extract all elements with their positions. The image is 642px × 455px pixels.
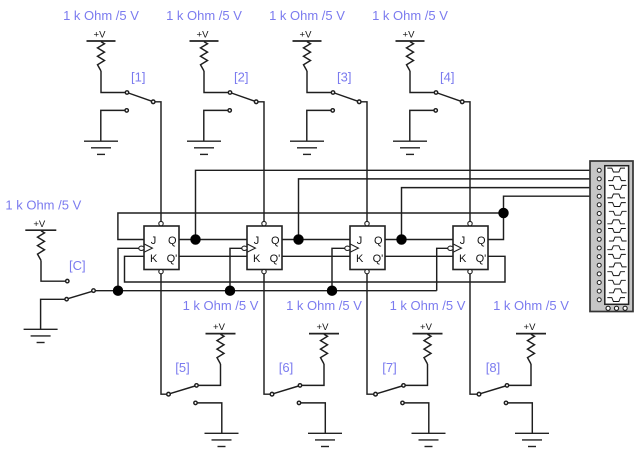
+V supply (top block 4) (396, 30, 425, 41)
svg-text:+V: +V (94, 30, 107, 41)
label [4] (440, 70, 454, 85)
resistor RC 1 kOhm (38, 231, 45, 261)
+V supply (top block 2) (190, 30, 219, 41)
wire clock branch to U2 (230, 248, 242, 290)
svg-text:J: J (254, 235, 259, 247)
junction dot clock node 2 (226, 286, 235, 295)
switch [1] blade and contacts (125, 91, 155, 104)
wire (switch [1] ground throw) (101, 110, 125, 141)
ground (top block 3) (290, 141, 324, 154)
+V supply (top block 3) (293, 30, 322, 41)
switch [C] open throw contact (66, 279, 69, 282)
switch [C] blade and pole (65, 289, 95, 301)
wire (R7 to switch [7]) (405, 364, 427, 385)
switch [4] ground throw contact (434, 109, 437, 112)
label [7] (382, 360, 396, 375)
svg-text:1 k Ohm /5 V: 1 k Ohm /5 V (183, 298, 259, 313)
svg-text:1 k Ohm /5 V: 1 k Ohm /5 V (269, 8, 345, 23)
resistor R7 1 kOhm (424, 334, 431, 364)
svg-text:+V: +V (197, 30, 210, 41)
ground (bottom block 7) (412, 433, 446, 446)
resistor R6 1 kOhm (321, 334, 328, 364)
label "1 k Ohm /5 V" (top block 2) (166, 8, 242, 23)
switch [6] ground throw contact (297, 401, 300, 404)
resistor R1 1 kOhm (98, 42, 105, 71)
wire (R4 to switch [4]) (410, 71, 434, 93)
svg-text:+V: +V (300, 30, 313, 41)
wire (U4 clear pin to switch [8] pole) (470, 274, 477, 394)
label "1 k Ohm /5 V" (clock block C) (5, 197, 81, 212)
svg-text:K: K (459, 253, 467, 265)
svg-text:+V: +V (317, 322, 330, 333)
switch [6] blade and contacts (270, 384, 301, 396)
wire (R8 to switch [8]) (509, 364, 531, 385)
ground (bottom block 6) (308, 433, 342, 446)
wire (switch [3] ground throw) (307, 110, 331, 141)
svg-text:[7]: [7] (382, 360, 396, 375)
ground (top block 1) (84, 141, 118, 154)
logic analyzer body (590, 161, 633, 312)
wire Q1 to J2 (179, 239, 247, 241)
wire (RC to switch [C] open throw) (41, 260, 66, 281)
+V supply (bottom block 6) (309, 322, 339, 333)
wire J feedback bus (Q4 to J1) (118, 213, 504, 240)
svg-text:[4]: [4] (440, 70, 454, 85)
label [C] (69, 258, 86, 273)
svg-text:[8]: [8] (486, 360, 500, 375)
label "1 k Ohm /5 V" (top block 4) (372, 8, 448, 23)
ground (bottom block 8) (515, 433, 549, 446)
switch [2] blade and contacts (228, 91, 258, 104)
ground (bottom block 5) (205, 433, 239, 446)
svg-text:1 k Ohm /5 V: 1 k Ohm /5 V (390, 298, 466, 313)
resistor R5 1 kOhm (217, 334, 224, 364)
label [1] (131, 70, 145, 85)
switch [7] blade and contacts (374, 384, 405, 396)
+V supply (clock block C) (25, 219, 56, 230)
junction dot clock node 1 (114, 286, 123, 295)
ground (top block 4) (393, 141, 427, 154)
wire (switch [7] ground throw) (404, 403, 429, 433)
wire (switch [C] pole to clock bus) (95, 290, 116, 292)
svg-text:Q': Q' (167, 253, 178, 265)
svg-text:1 k Ohm /5 V: 1 k Ohm /5 V (5, 197, 81, 212)
junction dot node Q4 feedback (499, 209, 508, 218)
J-K flip-flop U4 (448, 221, 488, 273)
svg-text:[C]: [C] (69, 258, 86, 273)
label "1 k Ohm /5 V" (bottom block 6) (286, 298, 362, 313)
switch [8] blade and contacts (477, 384, 508, 396)
svg-text:Q': Q' (476, 253, 487, 265)
J-K flip-flop U2 (242, 221, 282, 273)
switch [8] ground throw contact (504, 401, 507, 404)
svg-text:J: J (460, 235, 466, 247)
switch [7] ground throw contact (401, 401, 404, 404)
wire (U2 clear pin to switch [6] pole) (264, 274, 270, 394)
wire Q'2 to K3 (282, 255, 350, 257)
wire Q'1 to K2 (179, 255, 247, 257)
label "1 k Ohm /5 V" (bottom block 5) (183, 298, 259, 313)
logic analyzer waveform display (607, 168, 626, 301)
svg-text:[6]: [6] (279, 360, 293, 375)
+V supply (bottom block 7) (413, 322, 443, 333)
wire Q2 to J3 (282, 239, 350, 241)
switch [5] ground throw contact (194, 401, 197, 404)
svg-text:J: J (357, 235, 363, 247)
wire (switch [6] ground throw) (301, 403, 326, 433)
wire Q4 to analyzer ch4 (488, 196, 597, 239)
switch [3] blade and contacts (331, 91, 361, 104)
logic analyzer bottom terminals (606, 306, 627, 310)
svg-text:1 k Ohm /5 V: 1 k Ohm /5 V (166, 8, 242, 23)
wire clock branch to U3 (332, 248, 345, 290)
svg-text:+V: +V (420, 322, 433, 333)
wire (R2 to switch [2]) (204, 71, 228, 93)
wire Q1 to analyzer ch1 (196, 170, 598, 239)
+V supply (bottom block 5) (206, 322, 236, 333)
svg-text:Q: Q (477, 235, 486, 247)
+V supply (bottom block 8) (516, 322, 546, 333)
svg-text:K: K (150, 253, 158, 265)
wire (switch [2] pole to FF2 preset pin) (258, 102, 264, 222)
wire (R1 to switch [1]) (101, 71, 125, 93)
wire Q'3 to K4 (385, 255, 453, 257)
wire K feedback bus (Q'4 to K1) (125, 256, 506, 282)
svg-text:K: K (356, 253, 364, 265)
switch [5] blade and contacts (167, 384, 199, 396)
svg-text:Q: Q (271, 235, 280, 247)
J-K flip-flop U3 (345, 221, 385, 273)
resistor R2 1 kOhm (201, 42, 208, 71)
wire (switch [4] ground throw) (410, 110, 434, 141)
wire (R3 to switch [3]) (307, 71, 331, 93)
wire (switch [C] ground throw) (41, 299, 65, 329)
svg-text:[3]: [3] (337, 70, 351, 85)
label [5] (175, 360, 189, 375)
label "1 k Ohm /5 V" (top block 3) (269, 8, 345, 23)
wire clock branch to U1 (118, 248, 139, 290)
wire (switch [2] ground throw) (204, 110, 228, 141)
wire (switch [1] pole to FF1 preset pin) (155, 102, 161, 222)
svg-text:J: J (151, 235, 157, 247)
label [6] (279, 360, 293, 375)
junction dot node Q2 (294, 235, 303, 244)
resistor R3 1 kOhm (304, 42, 311, 71)
switch [3] ground throw contact (331, 109, 334, 112)
+V supply (top block 1) (87, 30, 116, 41)
J-K flip-flop U1 (139, 221, 179, 273)
wire (U1 clear pin to switch [5] pole) (161, 274, 167, 394)
wire (switch [3] pole to FF3 preset pin) (361, 102, 367, 222)
wire (R6 to switch [6]) (302, 364, 324, 385)
svg-text:Q': Q' (373, 253, 384, 265)
switch [4] blade and contacts (434, 91, 464, 104)
wire clock bus (116, 290, 437, 292)
ground (clock block C) (24, 329, 58, 342)
resistor R8 1 kOhm (528, 334, 535, 364)
wire (switch [5] ground throw) (197, 403, 222, 433)
svg-text:[5]: [5] (175, 360, 189, 375)
wire (U3 clear pin to switch [7] pole) (367, 274, 374, 394)
label "1 k Ohm /5 V" (bottom block 8) (493, 298, 569, 313)
wire (switch [8] ground throw) (508, 403, 533, 433)
svg-text:1 k Ohm /5 V: 1 k Ohm /5 V (372, 8, 448, 23)
resistor R4 1 kOhm (407, 42, 414, 71)
svg-text:+V: +V (213, 322, 226, 333)
wire (switch [4] pole to FF4 preset pin) (464, 102, 470, 222)
svg-text:Q: Q (374, 235, 383, 247)
junction dot node Q3 (397, 235, 406, 244)
svg-text:Q: Q (168, 235, 177, 247)
svg-text:1 k Ohm /5 V: 1 k Ohm /5 V (286, 298, 362, 313)
svg-text:Q': Q' (270, 253, 281, 265)
label [3] (337, 70, 351, 85)
switch [2] ground throw contact (228, 109, 231, 112)
wire Q3 to analyzer ch3 (402, 188, 598, 240)
label "1 k Ohm /5 V" (bottom block 7) (390, 298, 466, 313)
svg-text:[2]: [2] (234, 70, 248, 85)
label [8] (486, 360, 500, 375)
logic analyzer input pins (597, 168, 601, 301)
svg-text:K: K (253, 253, 261, 265)
svg-text:+V: +V (33, 219, 46, 230)
svg-text:1 k Ohm /5 V: 1 k Ohm /5 V (493, 298, 569, 313)
svg-text:+V: +V (403, 30, 416, 41)
svg-text:[1]: [1] (131, 70, 145, 85)
wire Q3 to J4 (385, 239, 453, 241)
svg-text:1 k Ohm /5 V: 1 k Ohm /5 V (63, 8, 139, 23)
svg-text:+V: +V (524, 322, 537, 333)
label [2] (234, 70, 248, 85)
switch [1] ground throw contact (125, 109, 128, 112)
ground (top block 2) (187, 141, 221, 154)
wire clock branch to U4 (437, 248, 448, 290)
wire (R5 to switch [5]) (198, 364, 220, 385)
wire Q2 to analyzer ch2 (299, 179, 598, 240)
label "1 k Ohm /5 V" (top block 1) (63, 8, 139, 23)
junction dot node Q1 (191, 235, 200, 244)
junction dot clock node 3 (328, 286, 337, 295)
